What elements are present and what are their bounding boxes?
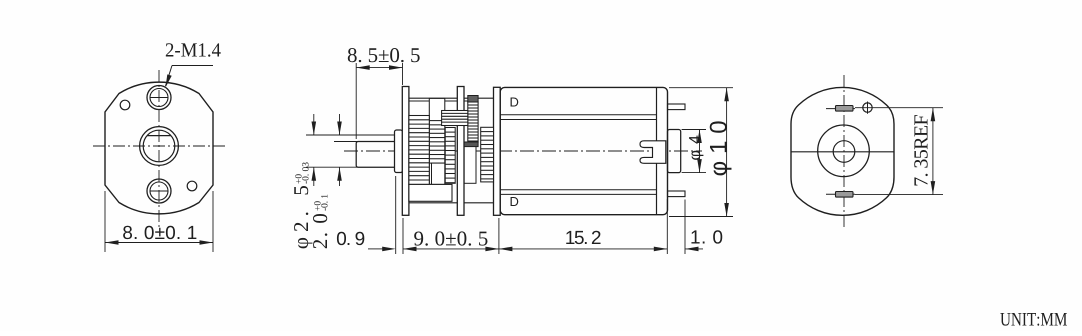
dim 9.0 right arrow bbox=[485, 247, 499, 252]
ext line at gearbox front bbox=[402, 218, 404, 254]
small hole lower-right bbox=[187, 181, 197, 191]
terminal tab bottom line bbox=[826, 193, 855, 195]
motor crimp line bottom 1 bbox=[500, 189, 656, 191]
gear G3 (wide top gear) bbox=[442, 111, 468, 126]
rear bearing circle outer bbox=[818, 125, 870, 177]
brush fork (terminal spring) bbox=[640, 141, 666, 164]
shaft bottom edge extension bbox=[306, 166, 357, 168]
top hole cross line bbox=[150, 97, 168, 99]
dim φ2.5 lower arrow bbox=[312, 167, 317, 181]
motor crimp line top 2 bbox=[500, 119, 656, 121]
gear G4 top cap bbox=[468, 96, 478, 103]
dim 1.0 text bbox=[691, 230, 722, 243]
motor endcap joint line bbox=[656, 88, 658, 214]
dim 15.2 left arrow bbox=[499, 247, 513, 252]
dim 0.9 arrow bbox=[382, 247, 396, 252]
dim 2.0 line upper bbox=[339, 114, 341, 135]
dim 8.0 dimension line bbox=[105, 242, 213, 244]
dim φ4 text bbox=[689, 136, 703, 160]
motor crimp line bottom 2 bbox=[500, 193, 656, 195]
dim 8.5 right arrow bbox=[389, 65, 403, 70]
dim 8.5 text bbox=[348, 48, 420, 62]
gear G2b (third stage gear) bbox=[445, 128, 455, 184]
ext line at motor front bbox=[498, 218, 500, 254]
shaft outline bbox=[356, 142, 394, 168]
terminal pin top bbox=[668, 104, 686, 110]
gear G5 (output side gear) bbox=[481, 127, 494, 182]
front view horizontal centerline bbox=[93, 145, 225, 147]
center bearing hole inner bbox=[143, 130, 175, 162]
terminal pin bottom bbox=[668, 191, 686, 197]
rear view outline bbox=[791, 87, 894, 215]
center hole flat chord bbox=[147, 135, 170, 137]
dim 2.0 lower arrow bbox=[337, 167, 342, 181]
dim 0.9 text bbox=[337, 232, 364, 245]
motor body outline bbox=[500, 87, 667, 214]
dim φ10 bottom extension bbox=[669, 216, 733, 218]
dim tol 2.0 upper bbox=[314, 201, 320, 210]
dim 15.2 right arrow bbox=[654, 247, 668, 252]
leader arrow bbox=[166, 74, 172, 87]
ext line at motor rear bbox=[666, 199, 668, 254]
ext line at pin tip bbox=[684, 200, 686, 255]
dim φ4 bottom extension bbox=[682, 172, 706, 174]
dim φ2.5 upper arrow bbox=[312, 122, 317, 136]
gearbox housing bottom line bbox=[409, 202, 494, 204]
dim φ10 bottom arrow bbox=[724, 203, 729, 217]
terminal tab bottom bbox=[836, 192, 854, 198]
center bearing hole outer bbox=[140, 127, 179, 166]
dim 9.0 text bbox=[414, 231, 487, 245]
gear G4 lower band bbox=[464, 142, 478, 147]
front view outline (circle with side flats) bbox=[105, 82, 213, 214]
bottom mounting hole M1.4 outer bbox=[147, 179, 171, 203]
dim φ4 top extension bbox=[682, 129, 706, 131]
dim φ10 top arrow bbox=[724, 88, 729, 102]
dim 8.0 left extension line bbox=[104, 191, 106, 252]
shaft phantom top line (full dia) bbox=[306, 134, 395, 136]
motor crimp line top 1 bbox=[500, 114, 656, 116]
dim text φ2.5 bbox=[294, 186, 312, 248]
dim 8.5 right extension bbox=[402, 63, 404, 85]
gearbox rear plate bbox=[494, 87, 501, 215]
side view main centerline bbox=[344, 150, 702, 152]
dim tol 2.0 lower bbox=[321, 195, 327, 211]
gear G2 column (second stage) bbox=[429, 98, 445, 184]
dim text 8.0±0.1 bbox=[123, 226, 196, 239]
bottom mounting hole M1.4 inner bbox=[150, 182, 168, 200]
unit note bbox=[1000, 313, 1067, 326]
dim text 7.35REF bbox=[914, 115, 928, 185]
top mounting hole M1.4 inner bbox=[150, 89, 168, 107]
leader line for 2-M1.4 bbox=[172, 65, 213, 67]
dim tol φ2.5 upper bbox=[295, 174, 301, 183]
dim 15.2 dimension line bbox=[499, 248, 667, 250]
dim 1.0 tail line bbox=[685, 248, 703, 250]
gear G2 hub bbox=[432, 163, 445, 184]
dim 1.0 arrow bbox=[685, 247, 699, 252]
motor vent mark bottom (D) bbox=[511, 197, 519, 206]
gear cluster bottom carrier bbox=[409, 184, 452, 201]
dim 7.35REF dimension line bbox=[932, 108, 934, 195]
dim 0.9 tail line bbox=[368, 248, 384, 250]
dim 7.35REF top arrow bbox=[931, 108, 936, 122]
dim φ2.5 line lower bbox=[313, 167, 315, 186]
dim 2.0 upper arrow bbox=[337, 122, 342, 136]
dim φ4 dimension line bbox=[699, 130, 701, 173]
dim φ10 dimension line bbox=[726, 88, 728, 217]
dim 8.0 right arrow bbox=[200, 240, 214, 245]
rear view horizontal seam line bbox=[791, 151, 894, 153]
ext line at boss left bbox=[395, 176, 397, 254]
dim 9.0 left arrow bbox=[403, 247, 417, 252]
top mounting hole M1.4 outer bbox=[147, 86, 171, 110]
dim text 2.0 bbox=[313, 214, 327, 248]
dim 7.35REF bottom arrow bbox=[931, 181, 936, 195]
dim 8.5 left extension bbox=[355, 63, 357, 139]
gearbox housing top inner line bbox=[409, 100, 468, 102]
gearbox front plate bbox=[402, 87, 409, 216]
shaft bearing boss bbox=[395, 130, 403, 173]
shaft top edge extension bbox=[334, 141, 357, 143]
terminal tab top bbox=[836, 106, 854, 112]
gear G4 hub box bbox=[464, 146, 476, 183]
gear G2 teeth bbox=[429, 121, 445, 164]
dim 15.2 text bbox=[566, 231, 600, 244]
gear G4 (tall gear column) bbox=[468, 102, 478, 142]
intermediate gear shaft bar bbox=[457, 87, 464, 216]
small hole upper-left bbox=[120, 100, 130, 110]
dim φ10 text bbox=[710, 121, 732, 175]
dim φ4 top arrow bbox=[697, 130, 702, 144]
label 2-M1.4 bbox=[166, 43, 221, 57]
terminal tab top line bbox=[826, 108, 855, 110]
rear bearing circle inner bbox=[833, 141, 855, 163]
dim 7.35REF bottom extension bbox=[855, 194, 943, 196]
gear G1 (large first stage) bbox=[409, 116, 429, 185]
dim 8.5 dimension line bbox=[356, 67, 402, 69]
dim 9.0 dimension line bbox=[403, 248, 499, 250]
dim 2.0 line lower bbox=[339, 167, 341, 186]
vent hole with cross bbox=[863, 103, 872, 112]
front view vertical centerline bbox=[158, 70, 160, 227]
dim 7.35REF top extension bbox=[855, 107, 943, 109]
dim φ10 top extension bbox=[669, 87, 733, 89]
rear bushing bbox=[668, 130, 681, 173]
dim 8.0 left arrow bbox=[105, 240, 119, 245]
dim φ2.5 line upper bbox=[313, 114, 315, 135]
bottom hole cross line bbox=[150, 190, 168, 192]
rear view vertical centerline bbox=[843, 75, 845, 230]
dim 8.0 right extension line bbox=[212, 191, 214, 252]
dim 8.5 left arrow bbox=[356, 65, 370, 70]
gearbox housing top line bbox=[409, 97, 494, 99]
motor vent mark top (D) bbox=[511, 98, 519, 107]
dim φ4 bottom arrow bbox=[697, 159, 702, 173]
dim tol φ2.5 lower bbox=[302, 162, 308, 183]
